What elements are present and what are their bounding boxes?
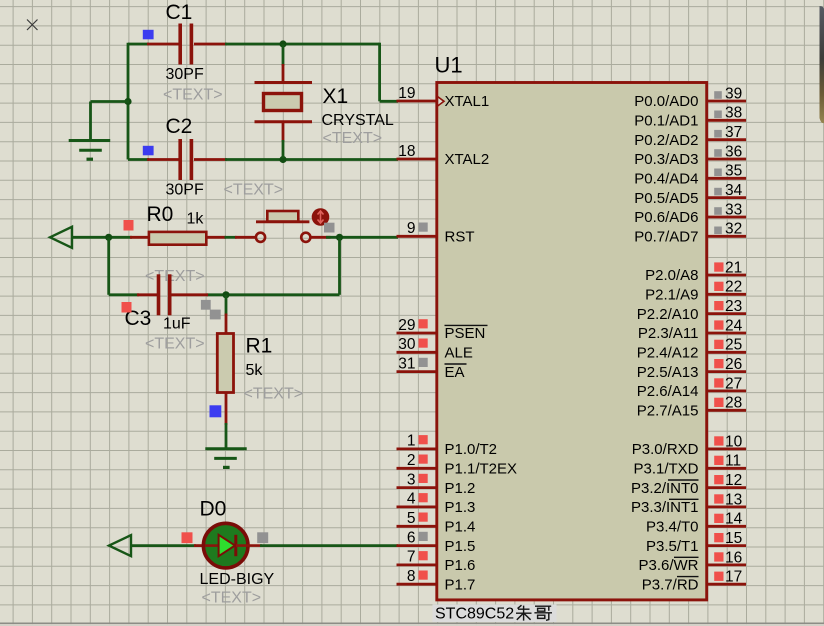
pin 32 P0.7/AD7 — [707, 235, 746, 238]
junction ground tee — [124, 98, 131, 105]
gray handles pair — [201, 300, 211, 310]
svg-text:D0: D0 — [200, 498, 227, 521]
pin 36 P0.3/AD3 — [707, 158, 746, 161]
svg-text:<TEXT>: <TEXT> — [224, 182, 284, 199]
svg-text:16: 16 — [725, 549, 742, 566]
pin 10 P3.0/RXD — [707, 447, 746, 450]
svg-text:P1.3: P1.3 — [445, 499, 476, 516]
pin 13 P3.3/INT1 — [707, 505, 746, 508]
pin X1 top — [282, 64, 285, 83]
LED D0 anode line — [205, 544, 220, 547]
pin 25 P2.4/A12 — [707, 351, 746, 354]
svg-text:P0.0/AD0: P0.0/AD0 — [634, 93, 698, 110]
wire C1 left — [128, 43, 149, 46]
pin 7 P1.6 — [397, 564, 437, 567]
svg-text:P2.1/A9: P2.1/A9 — [645, 287, 698, 304]
pin 15 P3.5/T1 — [707, 544, 746, 547]
svg-text:28: 28 — [725, 395, 742, 412]
svg-text:STC89C52: STC89C52 — [435, 606, 514, 623]
svg-text:<TEXT>: <TEXT> — [323, 130, 383, 147]
pin button right — [311, 236, 331, 239]
pin C2 left — [147, 158, 180, 161]
capacitor C2 — [178, 139, 182, 180]
ground symbol R1 — [205, 447, 246, 450]
pin 39 P0.0/AD0 — [707, 100, 746, 103]
wire to C3 left — [109, 293, 139, 296]
pin 22 P2.1/A9 — [707, 293, 746, 296]
resistor R0 — [149, 232, 206, 245]
svg-text:5: 5 — [407, 510, 416, 527]
svg-text:13: 13 — [725, 491, 742, 508]
wire RST down right — [338, 237, 341, 294]
svg-text:23: 23 — [725, 298, 742, 315]
resistor R1 — [217, 334, 233, 393]
pin 27 P2.6/A14 — [707, 389, 746, 392]
wire R0 to button — [225, 236, 237, 239]
pin 8 P1.7 — [397, 583, 437, 586]
svg-text:1uF: 1uF — [163, 316, 191, 333]
pin C3 right — [171, 293, 208, 296]
pin 35 P0.4/AD4 — [707, 177, 746, 180]
svg-text:X1: X1 — [323, 85, 349, 108]
svg-text:CRYSTAL: CRYSTAL — [322, 112, 394, 129]
svg-text:P2.4/A12: P2.4/A12 — [637, 345, 699, 362]
svg-text:LED-BIGY: LED-BIGY — [200, 571, 275, 588]
wire C1 to X1 top — [225, 43, 380, 46]
pin 9 RST — [397, 235, 437, 238]
svg-text:10: 10 — [725, 433, 743, 450]
pin C2 right — [194, 158, 227, 161]
svg-text:U1: U1 — [435, 53, 463, 78]
push button contact right — [301, 233, 310, 242]
D0 red handle — [182, 532, 193, 543]
junction X1 top — [279, 40, 286, 47]
wire R1 top — [225, 295, 228, 315]
IC U1 body — [437, 83, 707, 600]
pin 24 P2.3/A11 — [707, 332, 746, 335]
C1 blue handle — [143, 30, 154, 40]
svg-text:XTAL2: XTAL2 — [445, 151, 490, 168]
svg-text:<TEXT>: <TEXT> — [145, 336, 205, 353]
svg-text:P0.1/AD1: P0.1/AD1 — [634, 113, 698, 130]
svg-text:P2.7/A15: P2.7/A15 — [637, 403, 699, 420]
svg-text:21: 21 — [725, 259, 742, 276]
svg-text:P0.3/AD3: P0.3/AD3 — [634, 151, 698, 168]
svg-text:31: 31 — [398, 355, 415, 372]
svg-text:2: 2 — [407, 452, 416, 469]
svg-text:30PF: 30PF — [166, 66, 204, 83]
svg-text:14: 14 — [725, 511, 743, 528]
pin 37 P0.2/AD2 — [707, 138, 746, 141]
svg-text:8: 8 — [407, 568, 416, 585]
svg-text:P0.2/AD2: P0.2/AD2 — [634, 132, 698, 149]
pin 34 P0.5/AD5 — [707, 196, 746, 199]
pin 2 P1.1/T2EX — [397, 467, 437, 470]
svg-text:39: 39 — [725, 85, 742, 102]
capacitor C1 — [178, 24, 182, 65]
svg-text:<TEXT>: <TEXT> — [244, 386, 304, 403]
pin 18 XTAL2 — [397, 158, 437, 161]
svg-text:7: 7 — [407, 549, 416, 566]
pin 38 P0.1/AD1 — [707, 119, 746, 122]
svg-text:P0.7/AD7: P0.7/AD7 — [634, 229, 698, 246]
svg-text:1k: 1k — [187, 211, 205, 228]
svg-text:24: 24 — [725, 317, 743, 334]
svg-text:PSEN: PSEN — [445, 325, 486, 342]
wire RST left — [71, 236, 132, 239]
C2 blue handle — [143, 146, 154, 156]
wire down to XTAL1 — [378, 43, 381, 102]
svg-text:ALE: ALE — [445, 345, 473, 362]
pin 14 P3.4/T0 — [707, 525, 746, 528]
pin 26 P2.5/A13 — [707, 370, 746, 373]
wire to ground vertical — [89, 102, 92, 141]
svg-text:30: 30 — [398, 336, 416, 353]
wire X1 top — [282, 44, 285, 66]
pin 17 P3.7/RD — [707, 583, 746, 586]
svg-text:P1.5: P1.5 — [445, 538, 476, 555]
svg-text:5k: 5k — [246, 362, 264, 379]
svg-text:EA: EA — [445, 364, 465, 381]
svg-text:P3.4/T0: P3.4/T0 — [646, 519, 699, 536]
wire vertical C1-C2 — [127, 43, 130, 160]
push button contact left — [256, 233, 265, 242]
svg-text:34: 34 — [725, 182, 743, 199]
C3 red handle — [122, 302, 132, 313]
window edge bottom — [0, 623, 824, 625]
pin 31 EA — [397, 370, 437, 373]
svg-text:<TEXT>: <TEXT> — [202, 590, 262, 607]
pin C1 right — [194, 43, 227, 46]
terminal arrow RST — [50, 227, 72, 248]
pin 5 P1.4 — [397, 525, 437, 528]
junction X1 bottom — [279, 156, 286, 163]
pin 12 P3.2/INT0 — [707, 486, 746, 489]
svg-text:C2: C2 — [166, 115, 193, 138]
pin 21 P2.0/A8 — [707, 274, 746, 277]
svg-text:29: 29 — [398, 317, 415, 334]
ground symbol top-left — [69, 139, 111, 142]
pin 30 ALE — [397, 351, 437, 354]
svg-text:P0.6/AD6: P0.6/AD6 — [634, 209, 698, 226]
svg-text:P2.6/A14: P2.6/A14 — [637, 383, 699, 400]
pin R0 right — [207, 236, 227, 239]
wire across to C3 — [207, 293, 340, 296]
svg-text:3: 3 — [407, 471, 416, 488]
svg-text:R0: R0 — [147, 203, 174, 226]
pin 19 XTAL1 — [397, 100, 437, 103]
LED D0 body — [203, 523, 248, 568]
terminal arrow D0 — [109, 535, 131, 556]
junction RST right — [336, 234, 343, 241]
svg-text:P2.5/A13: P2.5/A13 — [637, 364, 699, 381]
button actuator — [312, 208, 330, 226]
svg-text:<TEXT>: <TEXT> — [163, 87, 223, 104]
capacitor C3 — [157, 274, 161, 315]
pin C3 left — [137, 293, 157, 296]
wire RST down left — [107, 237, 110, 294]
svg-text:12: 12 — [725, 472, 742, 489]
svg-text:P3.0/RXD: P3.0/RXD — [632, 441, 699, 458]
svg-text:P1.0/T2: P1.0/T2 — [445, 441, 498, 458]
junction R1 top — [222, 291, 229, 298]
svg-text:P1.2: P1.2 — [445, 480, 476, 497]
svg-text:P1.7: P1.7 — [445, 577, 476, 594]
svg-text:19: 19 — [398, 85, 415, 102]
pin button left — [235, 236, 256, 239]
pin C1 left — [147, 43, 180, 46]
wire to ground horizontal — [91, 100, 130, 103]
pin R1 top — [225, 314, 228, 335]
svg-text:27: 27 — [725, 375, 742, 392]
wire X1 bottom — [282, 140, 285, 158]
crystal X1 top plate — [255, 81, 313, 84]
pin 29 PSEN — [397, 332, 437, 335]
svg-text:<TEXT>: <TEXT> — [145, 268, 205, 285]
svg-text:P3.1/TXD: P3.1/TXD — [633, 461, 698, 478]
svg-text:P2.2/A10: P2.2/A10 — [637, 306, 699, 323]
svg-text:P3.6/WR: P3.6/WR — [638, 557, 698, 574]
pin D0 right — [236, 544, 262, 547]
push button bar — [256, 220, 309, 223]
pin 6 P1.5 — [397, 544, 437, 547]
svg-text:P1.4: P1.4 — [445, 519, 476, 536]
pin 3 P1.2 — [397, 486, 437, 489]
svg-text:P0.4/AD4: P0.4/AD4 — [634, 171, 698, 188]
wire C2 to XTAL2 — [225, 158, 398, 161]
svg-text:R1: R1 — [246, 335, 273, 358]
D0 gray handle — [257, 532, 268, 543]
svg-text:9: 9 — [407, 220, 416, 237]
svg-text:P3.5/T1: P3.5/T1 — [646, 538, 699, 555]
svg-text:4: 4 — [407, 491, 416, 508]
svg-text:22: 22 — [725, 279, 742, 296]
svg-text:P3.2/INT0: P3.2/INT0 — [631, 480, 699, 497]
pin X1 bottom — [282, 122, 285, 142]
label STC89C52 box — [433, 605, 557, 623]
pin 23 P2.2/A10 — [707, 312, 746, 315]
svg-text:33: 33 — [725, 201, 742, 218]
R0 red handle — [124, 220, 134, 231]
svg-text:26: 26 — [725, 356, 742, 373]
push button cap — [267, 211, 298, 222]
crystal X1 bottom plate — [255, 120, 313, 123]
svg-text:RST: RST — [445, 229, 475, 246]
label zhu-ge glyphs — [516, 605, 552, 620]
pin 33 P0.6/AD6 — [707, 216, 746, 219]
crystal X1 body — [264, 94, 302, 111]
svg-text:15: 15 — [725, 530, 742, 547]
svg-text:P0.5/AD5: P0.5/AD5 — [634, 190, 698, 207]
svg-text:P2.3/A11: P2.3/A11 — [638, 325, 699, 342]
svg-text:18: 18 — [398, 143, 415, 160]
svg-text:38: 38 — [725, 105, 742, 122]
wire button to RST pin — [326, 236, 398, 239]
pin R0 left — [130, 236, 149, 239]
LED D0 cathode bar — [234, 535, 237, 556]
pin R1 bottom — [225, 393, 228, 426]
svg-text:30PF: 30PF — [166, 182, 204, 199]
svg-text:XTAL1: XTAL1 — [445, 93, 490, 110]
svg-text:37: 37 — [725, 124, 742, 141]
svg-text:36: 36 — [725, 143, 742, 160]
svg-text:6: 6 — [407, 529, 416, 546]
svg-text:17: 17 — [725, 569, 742, 586]
svg-text:11: 11 — [725, 453, 741, 470]
LED D0 triangle — [219, 535, 235, 556]
origin marker X — [27, 20, 38, 31]
wire into XTAL1 — [380, 100, 398, 103]
wire D0 right — [260, 544, 398, 547]
svg-text:P2.0/A8: P2.0/A8 — [645, 267, 698, 284]
svg-text:P3.7/RD: P3.7/RD — [642, 577, 699, 594]
wire D0 left — [130, 544, 196, 547]
pin D0 left — [194, 544, 206, 547]
pin 16 P3.6/WR — [707, 564, 746, 567]
svg-text:32: 32 — [725, 221, 742, 238]
junction R0 left — [105, 234, 112, 241]
svg-text:P3.3/INT1: P3.3/INT1 — [631, 499, 699, 516]
pin 11 P3.1/TXD — [707, 467, 746, 470]
wire C2 left — [128, 158, 149, 161]
svg-text:P1.1/T2EX: P1.1/T2EX — [445, 461, 518, 478]
svg-text:35: 35 — [725, 163, 742, 180]
svg-text:C1: C1 — [166, 1, 193, 24]
pin 1 P1.0/T2 — [397, 447, 437, 450]
svg-text:1: 1 — [407, 433, 416, 450]
pin 19 input arrow — [438, 97, 445, 107]
svg-text:P1.6: P1.6 — [445, 557, 476, 574]
wire R1 to ground — [225, 423, 228, 449]
R1 blue handle — [210, 405, 222, 417]
button gray handle — [324, 223, 335, 233]
svg-text:25: 25 — [725, 337, 742, 354]
pin 4 P1.3 — [397, 505, 437, 508]
pin 28 P2.7/A15 — [707, 409, 746, 412]
